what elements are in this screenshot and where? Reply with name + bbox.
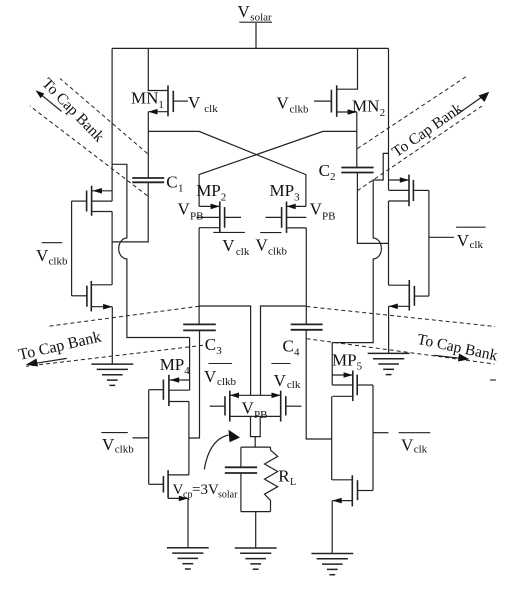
svg-text:1: 1 <box>158 99 164 111</box>
wire dashed mid-right to cap bank lower <box>306 339 494 364</box>
wire MP4 source from hop junction <box>189 338 191 391</box>
label Vclkb-bar left outer <box>36 246 68 268</box>
label RL <box>278 467 296 488</box>
wire MN2 source down to C2 <box>356 112 358 168</box>
wire overline of Vclkb-bar above VPB <box>209 363 233 365</box>
svg-text:PB: PB <box>190 210 203 222</box>
svg-text:4: 4 <box>294 346 300 358</box>
svg-text:V: V <box>36 246 49 265</box>
label MP4 <box>160 355 191 377</box>
svg-text:C: C <box>319 161 330 180</box>
svg-text:clk: clk <box>204 103 218 115</box>
label C2 <box>319 161 336 183</box>
svg-text:clkb: clkb <box>290 104 309 116</box>
wire Vclk-bar lead to MP5 gate <box>373 432 388 434</box>
label MP2 <box>196 181 226 204</box>
svg-text:solar: solar <box>218 490 238 501</box>
label MN1 <box>131 89 164 112</box>
svg-text:MN: MN <box>131 89 158 108</box>
label MP5 <box>332 350 363 372</box>
wire MN1 drain from rail <box>148 48 168 90</box>
wire Vclk-bar overline right outer <box>456 226 486 228</box>
wire output node bottom <box>241 511 271 513</box>
svg-text:C: C <box>205 335 216 354</box>
transistor MP4 top <box>149 375 190 406</box>
svg-text:V: V <box>102 435 115 454</box>
wire right outer gate wire <box>428 190 430 296</box>
label Vclkb under MP3 <box>256 236 288 258</box>
wire overline of Vclk-bar above VPB <box>271 363 290 365</box>
transistor MN2 <box>314 85 357 117</box>
wire MP5 drain rail <box>331 396 333 480</box>
label MN2 <box>352 96 385 119</box>
label VPB left of MP2 <box>178 200 204 223</box>
label MP3 <box>270 181 301 204</box>
wire output stem <box>254 437 256 448</box>
arrow upper-right to cap bank <box>457 92 489 115</box>
wire MN1 source down to C1 <box>147 112 149 178</box>
svg-text:V: V <box>173 482 184 498</box>
label Vclkb-bar at MP4 gate <box>102 435 134 456</box>
wire left outer gate wire <box>71 201 73 296</box>
transistor MP5 bottom <box>332 475 373 506</box>
svg-text:clk: clk <box>470 239 484 251</box>
svg-text:V: V <box>401 436 414 455</box>
wire cap branch down <box>240 447 242 467</box>
svg-text:V: V <box>256 236 269 255</box>
wire Vsolar underline <box>239 21 272 23</box>
wire branch MP3 drain to VPB pass right <box>261 306 307 395</box>
svg-text:1: 1 <box>178 183 184 195</box>
svg-text:To Cap Bank: To Cap Bank <box>389 100 466 161</box>
wire left outer from rail to source-bulk <box>111 48 113 201</box>
wire output node top <box>241 446 271 448</box>
wire MP5 source to ground <box>331 501 333 554</box>
svg-text:clk: clk <box>414 443 428 455</box>
wire bottom node to ground <box>255 512 257 548</box>
svg-text:V: V <box>277 94 290 113</box>
svg-text:MP: MP <box>270 181 295 200</box>
svg-text:clkb: clkb <box>115 444 134 456</box>
wire right outer source to ground <box>388 306 390 353</box>
svg-text:clkb: clkb <box>217 376 236 388</box>
wire overline of Vclkb-bar at MP4 gate <box>101 432 127 434</box>
label C3 <box>205 335 223 357</box>
label C4 <box>283 336 301 358</box>
transistor right outer bottom PMOS <box>389 280 429 311</box>
capacitor C4 <box>291 324 323 329</box>
svg-text:V: V <box>457 231 470 250</box>
wire Vclkb-bar lead to MP4 gate <box>133 437 149 439</box>
arrow upper-left to cap bank <box>36 90 62 111</box>
wire tick right edge <box>490 379 496 381</box>
wire left outer source to ground <box>111 307 113 364</box>
svg-text:V: V <box>204 367 217 386</box>
label Vclk at MN1 gate <box>188 93 218 115</box>
wire dashed upper-right to cap bank lower <box>357 106 482 191</box>
wire left outer drain rail <box>111 212 113 285</box>
label Vclkb-bar above VPB left gate <box>204 367 236 388</box>
transistor MP4 bottom <box>149 470 189 501</box>
capacitor C2 <box>341 168 373 173</box>
svg-text:To Cap Bank: To Cap Bank <box>416 331 500 365</box>
wire cross-couple MN2 source to MP2 source <box>199 131 357 206</box>
svg-text:clk: clk <box>287 379 301 391</box>
wire MP5 source from right hop junction <box>331 343 333 385</box>
wire branch MP2 drain to VPB pass left <box>199 306 251 395</box>
transistor right outer top PMOS <box>389 175 429 207</box>
wire MN2 drain from rail <box>337 48 358 89</box>
node Vsolar label <box>238 2 273 24</box>
transistor VPB pass (horizontal) <box>210 391 302 422</box>
wire Vclk-bar overline under MP2 <box>213 231 245 233</box>
svg-text:V: V <box>222 236 235 255</box>
capacitor output <box>225 467 257 473</box>
wire C2 bottom to right drain rail <box>357 173 388 244</box>
svg-text:3: 3 <box>294 191 300 203</box>
svg-text:V: V <box>188 93 201 112</box>
ground under MP5 <box>311 554 353 575</box>
svg-text:clk: clk <box>236 246 250 258</box>
wire MP5 gate rail <box>372 385 374 491</box>
arrow curved to output node <box>204 430 240 470</box>
transistor left outer top PMOS <box>72 186 113 216</box>
label Vclk-bar above VPB right gate <box>274 371 301 391</box>
wire dashed upper-left to cap bank lower <box>30 106 147 196</box>
capacitor C1 <box>132 178 164 182</box>
svg-text:V: V <box>274 371 287 390</box>
wire MP4 drain rail <box>188 402 190 475</box>
wire resistor branch top <box>270 447 272 450</box>
label Vclkb at MN2 gate <box>277 94 309 116</box>
wire overline of Vclk-bar at MP5 gate <box>399 432 431 434</box>
resistor RL <box>265 450 278 512</box>
svg-text:clkb: clkb <box>49 256 68 268</box>
label VPB center <box>242 399 268 422</box>
wire dashed upper-left to cap bank upper <box>60 79 148 154</box>
svg-text:3: 3 <box>216 345 222 357</box>
wire Vsolar stem <box>255 23 257 49</box>
transistor MP3 <box>266 202 307 233</box>
transistor MP2 <box>196 202 241 233</box>
label Vclk-bar at MP5 gate <box>401 436 428 456</box>
ground left outer <box>91 364 133 385</box>
wire C4 bottom jog to MP5 drain rail <box>306 330 332 439</box>
svg-text:=3V: =3V <box>192 482 219 498</box>
wire MP4 source to ground <box>187 498 189 547</box>
ground center bottom <box>235 548 277 569</box>
svg-text:2: 2 <box>380 107 386 119</box>
wire MP4 gate rail <box>148 390 150 485</box>
label Vclk under MP2 <box>222 236 250 258</box>
svg-text:C: C <box>283 336 294 355</box>
svg-text:2: 2 <box>330 171 336 183</box>
svg-text:2: 2 <box>221 191 227 203</box>
wire cross-couple MN1 source to MP3 source <box>148 131 306 206</box>
svg-text:L: L <box>290 477 296 488</box>
transistor MN1 <box>148 85 188 116</box>
arrow mid-left to cap bank <box>26 358 67 366</box>
wire left hop branch with crossover arc <box>112 164 190 337</box>
wire right outer drain rail <box>388 201 390 285</box>
svg-text:V: V <box>242 399 255 418</box>
transistor left outer bottom PMOS <box>72 281 113 312</box>
capacitor C3 <box>183 324 216 330</box>
svg-text:MN: MN <box>352 96 379 115</box>
label Vcp=3Vsolar <box>173 482 239 501</box>
wire dashed upper-right to cap bank upper <box>357 76 467 149</box>
wire C1 bottom to left drain rail <box>112 182 148 242</box>
label VPB right of MP3 <box>310 200 336 223</box>
svg-text:V: V <box>178 200 191 219</box>
wire MP2 drain down to C3 with branch <box>198 228 200 325</box>
ground right outer <box>368 353 410 374</box>
wire dashed mid-left to cap bank lower <box>26 345 203 366</box>
wire dashed mid-right to cap bank upper <box>307 307 496 327</box>
svg-text:MP: MP <box>196 181 221 200</box>
wire dashed mid-left to cap bank upper <box>48 306 199 326</box>
wire right outer from rail to source-bulk <box>388 48 390 190</box>
arrow mid-right to cap bank <box>434 354 469 362</box>
svg-text:MP: MP <box>332 350 357 369</box>
ground under MP4 <box>167 548 209 569</box>
svg-text:5: 5 <box>357 361 363 373</box>
wire Vclk-bar lead right outer <box>429 236 454 238</box>
wire right hop branch with crossover arc <box>332 153 388 342</box>
wire MP3 drain down to C4 <box>305 228 307 325</box>
svg-text:V: V <box>238 2 251 21</box>
wire C3 bottom jog to MP4 drain rail <box>189 330 200 438</box>
svg-text:R: R <box>278 467 290 486</box>
label C1 <box>166 173 183 195</box>
svg-text:PB: PB <box>322 210 335 222</box>
wire VPB drain U to output stem <box>251 416 261 436</box>
wire Vclkb-bar overline left outer <box>42 242 63 244</box>
svg-text:clkb: clkb <box>268 246 287 258</box>
transistor MP5 top <box>332 371 373 402</box>
wire below output cap <box>240 473 242 512</box>
label Vclk-bar right outer <box>457 231 484 251</box>
svg-text:MP: MP <box>160 355 185 374</box>
wire Vclkb-bar overline under MP3 <box>260 232 281 234</box>
svg-text:V: V <box>310 200 323 219</box>
svg-text:C: C <box>166 173 177 192</box>
wire top supply rail <box>112 47 388 49</box>
